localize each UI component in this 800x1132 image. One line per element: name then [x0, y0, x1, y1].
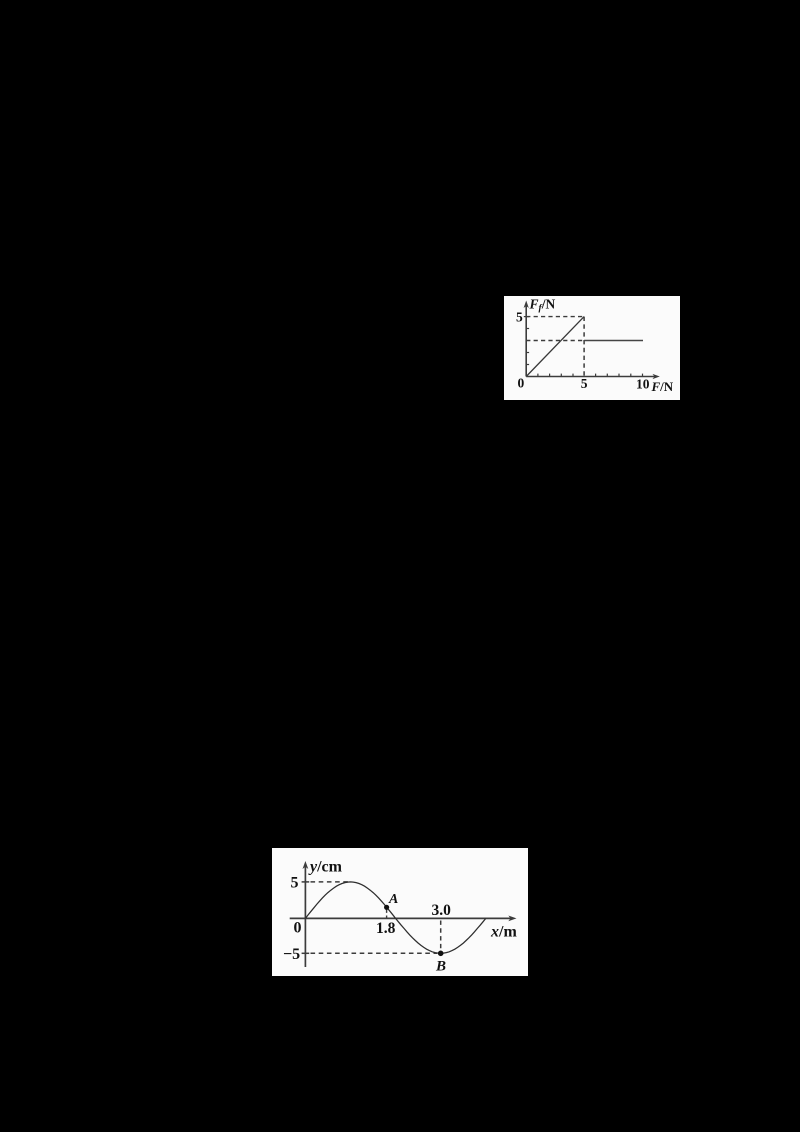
x ticks: [538, 374, 643, 377]
svg-text:B: B: [435, 959, 446, 975]
svg-text:5: 5: [581, 376, 588, 391]
sine wave curve: [305, 882, 485, 953]
x-axis arrow: [508, 916, 516, 922]
svg-text:Ff/N: Ff/N: [529, 297, 556, 314]
wave y-x graph panel: [272, 848, 528, 976]
kinetic-friction plateau segment: [584, 340, 643, 342]
svg-text:10: 10: [636, 377, 650, 392]
tick at +5: [302, 881, 310, 883]
svg-text:5: 5: [291, 875, 299, 892]
short dashed drop from A: [386, 910, 388, 919]
svg-text:0: 0: [294, 920, 302, 937]
point B dot: [438, 951, 444, 957]
svg-text:1.8: 1.8: [376, 920, 396, 937]
point A dot: [384, 905, 389, 910]
y-axis: [304, 866, 306, 967]
x-axis arrow: [653, 374, 660, 379]
x-axis: [526, 376, 655, 378]
y-axis: [525, 305, 527, 377]
y ticks: [524, 317, 529, 365]
friction-force graph panel: [504, 296, 680, 400]
y-axis arrow: [303, 861, 309, 869]
svg-text:y/cm: y/cm: [308, 859, 343, 876]
y-axis arrow: [524, 301, 529, 309]
svg-text:0: 0: [518, 376, 525, 391]
dashed level Ff=5: [526, 316, 584, 318]
x-axis: [290, 917, 512, 919]
dashed level Ff=3: [526, 340, 584, 342]
svg-text:A: A: [388, 892, 398, 907]
svg-text:x/m: x/m: [490, 924, 517, 941]
svg-text:5: 5: [516, 309, 523, 324]
dashed vertical F=5: [583, 317, 585, 377]
dashed level +5 to crest: [311, 881, 350, 883]
tick at -5: [302, 952, 310, 954]
svg-text:F/N: F/N: [651, 379, 674, 394]
svg-text:−5: −5: [283, 946, 300, 963]
dashed vertical at x=3.0: [440, 921, 442, 951]
rising static-friction segment: [526, 317, 584, 377]
dashed level -5 to trough: [311, 952, 438, 954]
svg-text:3.0: 3.0: [432, 902, 452, 919]
